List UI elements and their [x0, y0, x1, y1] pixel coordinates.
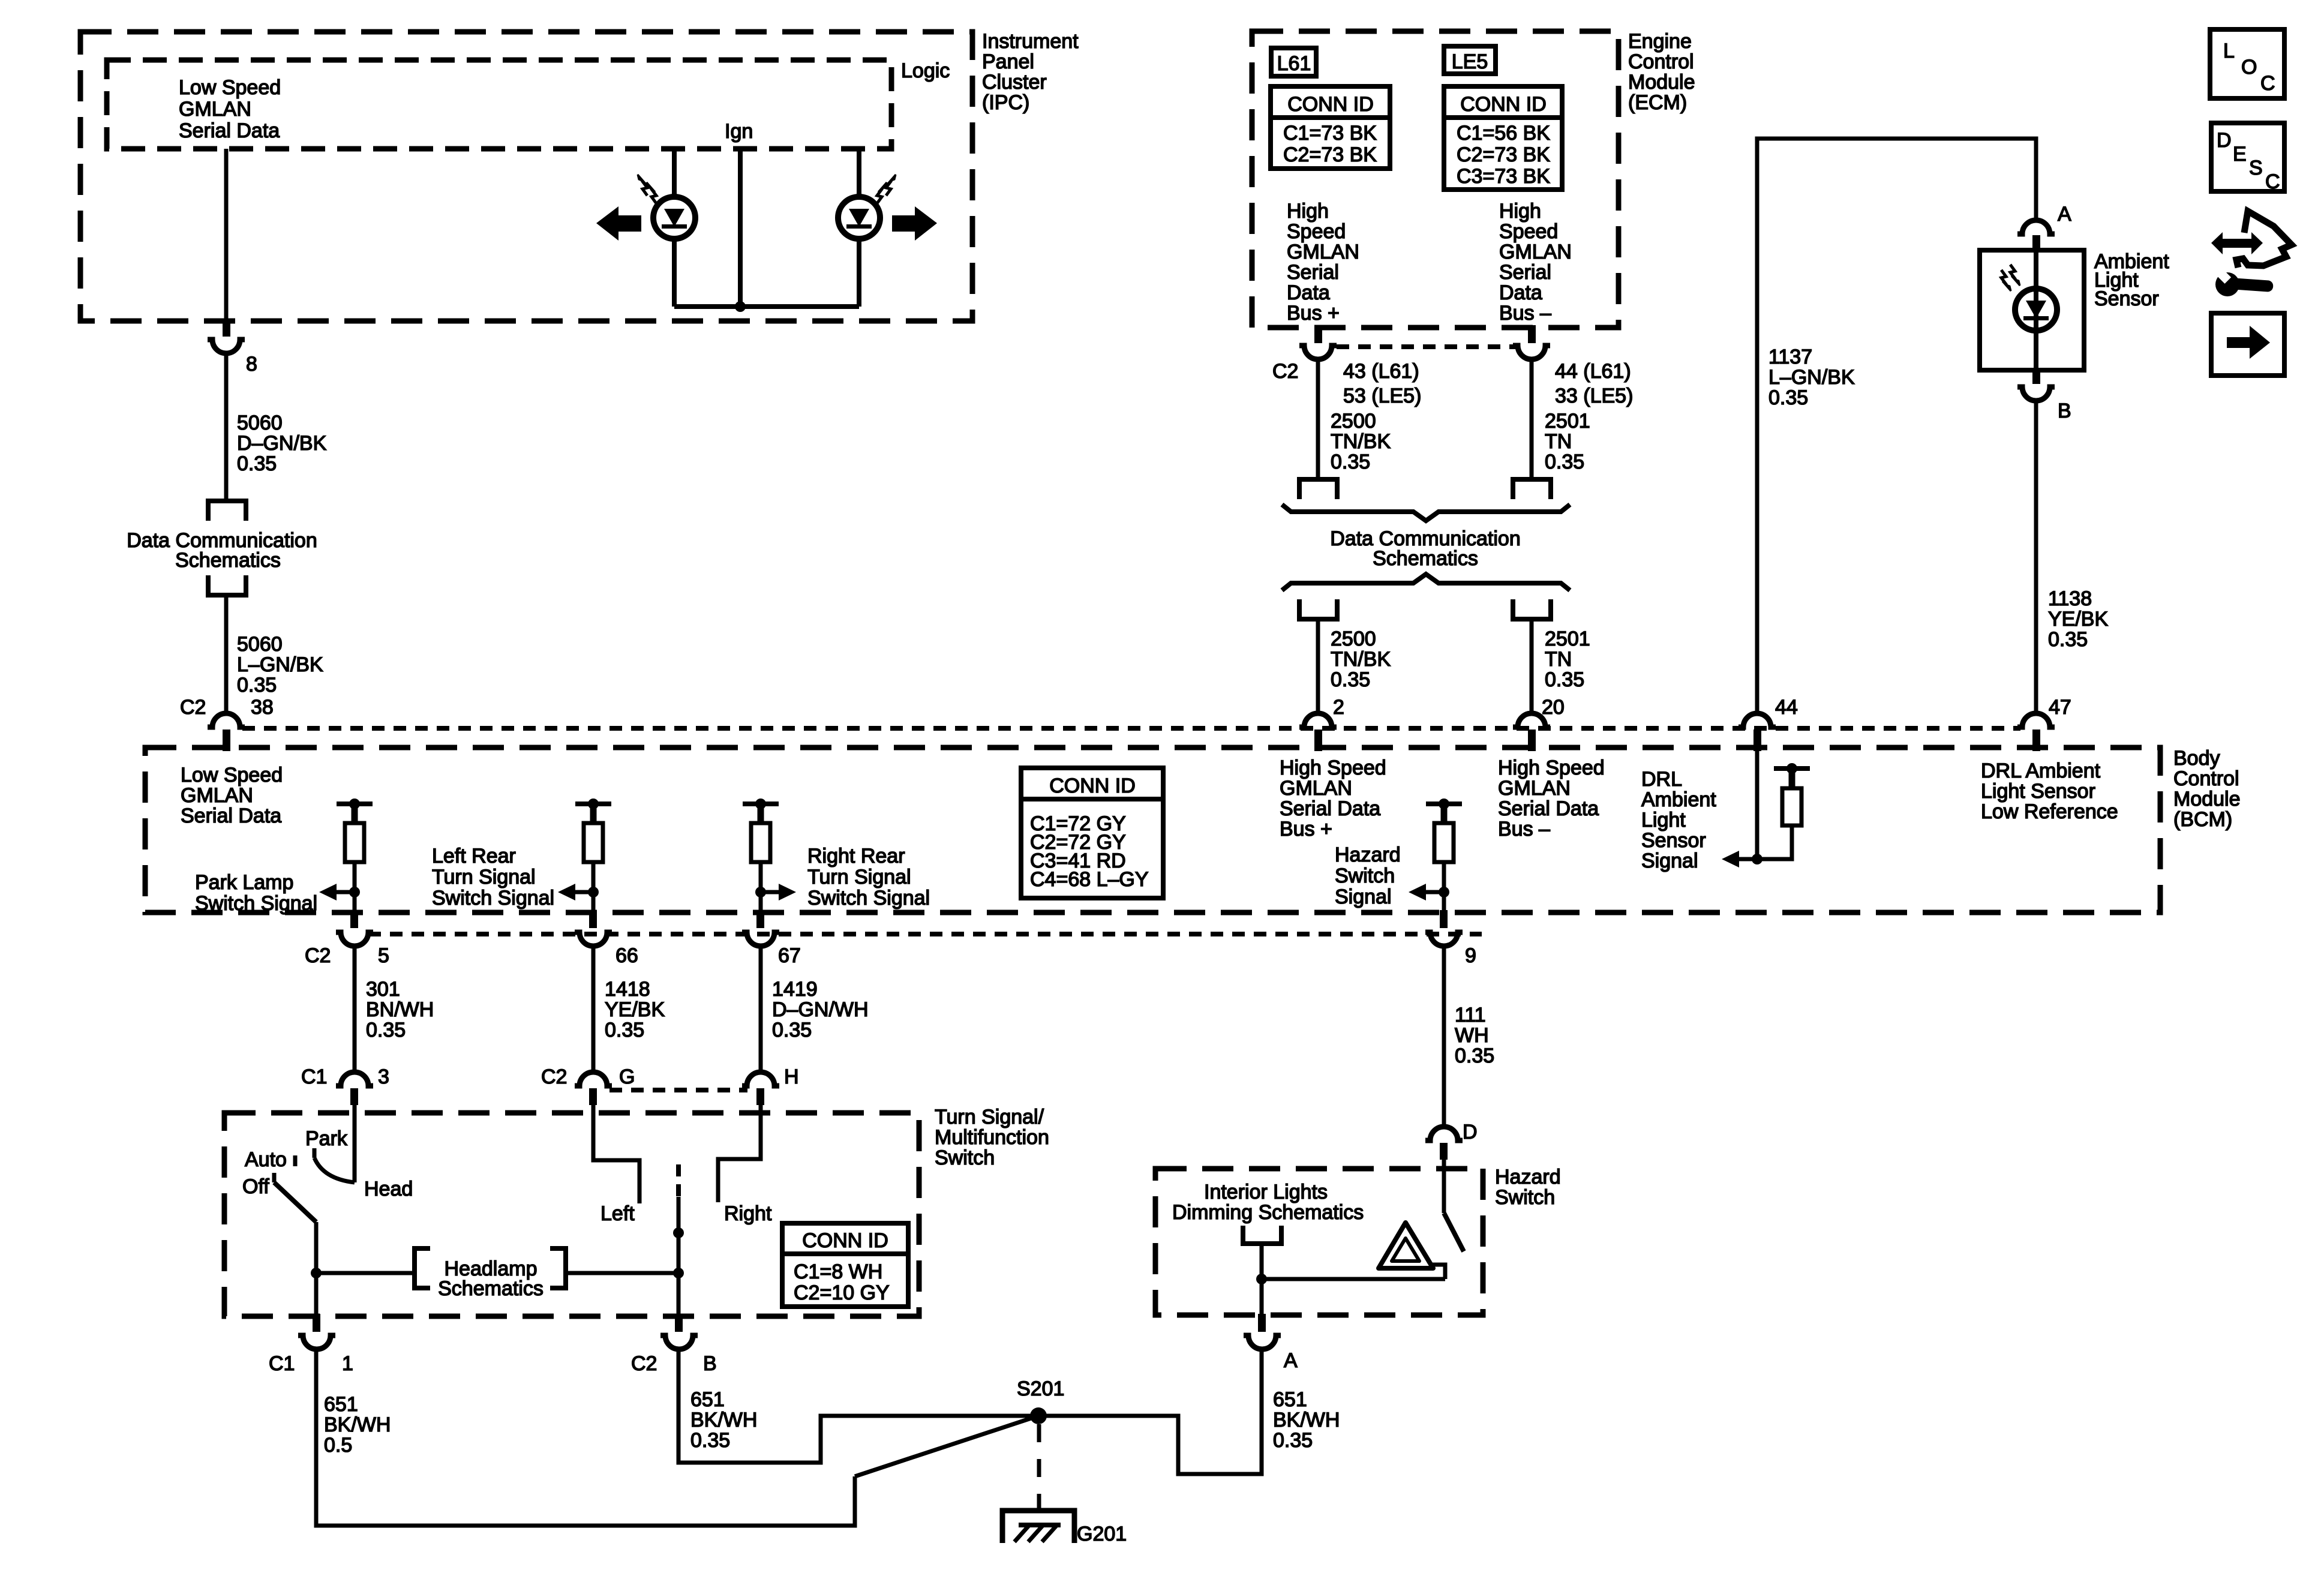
svg-text:D–GN/BK: D–GN/BK	[237, 432, 327, 455]
wire: 651 BK/WH 0.35 from C2-B	[678, 1350, 1038, 1463]
svg-text:Low Speed: Low Speed	[181, 764, 283, 786]
icon: DESC box	[2211, 123, 2284, 193]
connector: ambient light sensor pin A	[2017, 220, 2055, 251]
svg-text:8: 8	[246, 353, 257, 376]
svg-text:9: 9	[1465, 944, 1476, 967]
wire: diagonal to splice S201	[855, 1416, 1038, 1476]
svg-text:1418: 1418	[605, 978, 650, 1001]
svg-text:E: E	[2233, 143, 2247, 166]
table: CONN ID (LE5)	[1444, 86, 1562, 190]
resistor: hazard switch signal driver	[1426, 798, 1462, 912]
svg-text:Switch Signal: Switch Signal	[432, 887, 554, 909]
svg-text:Ambient: Ambient	[1641, 788, 1716, 811]
module box: Engine Control Module (ECM)	[1252, 31, 1619, 328]
svg-text:O: O	[2241, 56, 2257, 79]
pin label: B	[2058, 400, 2071, 422]
svg-text:Turn Signal/: Turn Signal/	[935, 1106, 1044, 1128]
lightning arrows: right LED	[877, 175, 896, 203]
svg-text:Left: Left	[600, 1202, 635, 1225]
wire: 651 BK/WH 0.35 from hazard A	[1038, 1349, 1262, 1474]
pin label: 47	[2049, 696, 2071, 719]
node: Low Speed GMLAN Serial Data (IPC)	[179, 76, 281, 142]
svg-text:C2: C2	[305, 944, 331, 967]
LED: right turn indicator lamp	[838, 197, 880, 239]
svg-text:(ECM): (ECM)	[1628, 91, 1687, 114]
svg-text:Bus +: Bus +	[1280, 818, 1332, 840]
node: High Speed GMLAN Serial Data Bus - (ECM)	[1499, 200, 1572, 325]
svg-text:L–GN/BK: L–GN/BK	[1768, 366, 1855, 389]
svg-text:BK/WH: BK/WH	[1273, 1409, 1340, 1431]
svg-text:66: 66	[615, 944, 638, 967]
svg-text:Signal: Signal	[1335, 885, 1392, 908]
connector dash line: ECM C2	[1337, 344, 1515, 349]
svg-text:301: 301	[366, 978, 400, 1001]
svg-text:C2=73 BK: C2=73 BK	[1457, 143, 1550, 166]
pin label: A	[2058, 203, 2071, 226]
svg-text:B: B	[703, 1352, 717, 1375]
ground: G201	[1002, 1511, 1127, 1545]
svg-text:0.35: 0.35	[605, 1019, 644, 1041]
svg-text:D: D	[1463, 1121, 1478, 1143]
svg-text:TN: TN	[1545, 430, 1572, 453]
table: CONN ID (turn signal switch)	[782, 1223, 908, 1307]
svg-text:TN/BK: TN/BK	[1331, 430, 1391, 453]
pin label: C2 G	[541, 1065, 635, 1088]
svg-text:0.35: 0.35	[237, 674, 277, 697]
wire: 2501 TN upper	[1530, 359, 1534, 479]
svg-text:Auto: Auto	[245, 1148, 287, 1171]
svg-text:0.35: 0.35	[1331, 668, 1370, 691]
wire: Ign feed	[738, 149, 743, 307]
label: Interior Lights Dimming Schematics	[1172, 1181, 1364, 1224]
pin label: 20	[1542, 696, 1565, 719]
switch blade: hazard switch	[1444, 1160, 1464, 1251]
svg-text:0.35: 0.35	[1768, 386, 1808, 409]
svg-text:Head: Head	[364, 1178, 413, 1200]
wire: hazard switch contact to dimming junction	[1262, 1277, 1445, 1281]
wire label: 1138 YE/BK 0.35	[2048, 587, 2108, 651]
resistor: park lamp switch signal driver	[337, 798, 373, 912]
brace: to data communication schematics	[1282, 505, 1570, 521]
svg-text:C2: C2	[1272, 360, 1298, 383]
svg-text:Schematics: Schematics	[175, 549, 281, 572]
off-page bracket: to data communication schematics (top)	[208, 501, 246, 521]
lightning arrows: into photodiode	[2001, 265, 2020, 291]
svg-text:Switch: Switch	[1495, 1186, 1555, 1209]
svg-text:YE/BK: YE/BK	[2048, 608, 2108, 631]
svg-text:DRL Ambient: DRL Ambient	[1981, 760, 2101, 782]
node: Low Speed GMLAN Serial Data (BCM)	[181, 764, 283, 827]
connector dash line: C2 G-H	[609, 1088, 747, 1092]
svg-text:3: 3	[378, 1065, 389, 1088]
contact: park	[313, 1148, 317, 1158]
wire label: 651 BK/WH 0.35 (right)	[1273, 1388, 1340, 1452]
svg-text:High Speed: High Speed	[1498, 757, 1605, 779]
svg-text:Data: Data	[1287, 281, 1330, 304]
photodiode: ambient light sensor	[2015, 289, 2057, 331]
svg-text:0.35: 0.35	[366, 1019, 406, 1041]
svg-text:1137: 1137	[1768, 346, 1812, 368]
svg-text:Bus +: Bus +	[1287, 302, 1340, 325]
svg-text:D: D	[2217, 129, 2232, 152]
svg-text:0.35: 0.35	[1455, 1044, 1494, 1067]
svg-text:33 (LE5): 33 (LE5)	[1555, 385, 1633, 407]
svg-text:Hazard: Hazard	[1495, 1166, 1561, 1188]
svg-text:CONN ID: CONN ID	[1049, 775, 1136, 797]
label: Body Control Module (BCM)	[2173, 747, 2241, 831]
wire label: 111 WH 0.35	[1455, 1004, 1494, 1067]
svg-text:C1: C1	[301, 1065, 327, 1088]
connector: BCM pin 47	[2017, 713, 2055, 751]
wire: 5060 L-GN/BK 0.35	[224, 595, 229, 714]
svg-text:DRL: DRL	[1641, 768, 1682, 791]
switch wiper: headlamp switch arc	[314, 1158, 355, 1182]
svg-text:GMLAN: GMLAN	[1287, 241, 1359, 263]
label: Right	[724, 1202, 772, 1225]
label: Turn Signal/Multifunction Switch	[935, 1106, 1049, 1169]
svg-text:Logic: Logic	[901, 59, 950, 82]
label: Ign	[725, 120, 753, 143]
svg-text:TN: TN	[1545, 648, 1572, 671]
svg-text:38: 38	[251, 696, 274, 719]
svg-text:L61: L61	[1277, 52, 1311, 75]
wire label: 2501 TN 0.35 upper	[1545, 410, 1590, 473]
wire label: 651 BK/WH 0.5	[324, 1393, 391, 1457]
label: Right Rear Turn Signal Switch Signal	[807, 845, 930, 909]
arrow: right rear turn signal switch signal	[761, 884, 796, 900]
svg-text:Control: Control	[1628, 50, 1694, 73]
wire: 1418 YE/BK 0.35	[591, 946, 596, 1073]
svg-text:0.5: 0.5	[324, 1434, 352, 1457]
svg-text:Hazard: Hazard	[1335, 843, 1401, 866]
arrow: park lamp switch signal	[319, 884, 355, 900]
node: left rear junction	[588, 887, 599, 897]
svg-text:High Speed: High Speed	[1280, 757, 1386, 779]
wire: 651 BK/WH 0.5 from C1-1	[316, 1350, 855, 1526]
svg-text:Right Rear: Right Rear	[807, 845, 905, 867]
svg-text:Light Sensor: Light Sensor	[1981, 780, 2095, 803]
svg-text:0.35: 0.35	[1545, 451, 1584, 473]
label: Engine Control Module (ECM)	[1628, 30, 1695, 114]
svg-text:TN/BK: TN/BK	[1331, 648, 1391, 671]
wire label: 1137 L-GN/BK 0.35	[1768, 346, 1855, 409]
label: Left	[600, 1202, 635, 1225]
svg-text:Switch: Switch	[1335, 864, 1395, 887]
svg-text:C: C	[2260, 72, 2275, 95]
connector: BCM pin 20	[1513, 713, 1550, 751]
svg-text:BK/WH: BK/WH	[690, 1409, 757, 1431]
off-page bracket: 2501 lower end	[1513, 599, 1551, 619]
pin label: 44 (L61) 33 (LE5)	[1555, 360, 1633, 407]
lightning arrows: left LED	[638, 175, 656, 203]
wire: ground lead (dashed)	[1037, 1424, 1041, 1524]
svg-text:WH: WH	[1455, 1024, 1489, 1047]
svg-text:0.35: 0.35	[237, 452, 277, 475]
label: Park Lamp Switch Signal	[195, 871, 317, 915]
wire: 2500 TN/BK upper	[1316, 359, 1320, 479]
svg-text:Module: Module	[2173, 788, 2241, 810]
wire: through ambient sensor	[2034, 250, 2038, 370]
svg-text:Right: Right	[724, 1202, 772, 1225]
arrow: DRL ambient light sensor signal	[1722, 851, 1757, 867]
svg-text:Schematics: Schematics	[438, 1277, 544, 1300]
svg-text:C2: C2	[631, 1352, 657, 1375]
svg-text:S201: S201	[1017, 1377, 1064, 1400]
connector: ECM C2 pin 43/53	[1299, 325, 1337, 359]
wire label: 301 BN/WH 0.35	[366, 978, 434, 1041]
svg-text:2: 2	[1333, 696, 1344, 719]
svg-text:Low Speed: Low Speed	[179, 76, 281, 99]
svg-text:C1=73 BK: C1=73 BK	[1283, 122, 1377, 145]
icon: harness repair (arrow, connector, wrench)	[2211, 211, 2292, 296]
connector: turn signal switch C2 pin B	[660, 1314, 698, 1349]
svg-text:CONN ID: CONN ID	[1287, 93, 1374, 116]
resistor: left rear turn signal driver	[575, 798, 611, 912]
wire: left turn contact feed	[593, 1105, 639, 1203]
svg-text:C1: C1	[269, 1352, 295, 1375]
svg-text:651: 651	[1273, 1388, 1307, 1411]
svg-text:Park: Park	[305, 1127, 348, 1150]
pin label: A	[1284, 1349, 1298, 1372]
wire: 2500 TN/BK lower	[1316, 619, 1320, 714]
svg-text:67: 67	[778, 944, 801, 967]
svg-text:(IPC): (IPC)	[982, 91, 1029, 114]
svg-text:Sensor: Sensor	[2094, 287, 2159, 310]
connector: hazard switch pin D	[1425, 1127, 1463, 1160]
pin label: D	[1463, 1121, 1478, 1143]
svg-text:53 (LE5): 53 (LE5)	[1343, 385, 1421, 407]
svg-text:A: A	[1284, 1349, 1298, 1372]
svg-text:Sensor: Sensor	[1641, 829, 1706, 852]
svg-text:L–GN/BK: L–GN/BK	[237, 653, 323, 676]
connector: turn signal switch C1 pin 1	[298, 1314, 335, 1349]
svg-text:(BCM): (BCM)	[2173, 808, 2232, 831]
svg-text:44 (L61): 44 (L61)	[1555, 360, 1631, 383]
wire label: 2501 TN 0.35 lower	[1545, 628, 1590, 691]
module box: Turn Signal/Multifunction Switch	[224, 1113, 919, 1316]
svg-text:44: 44	[1775, 696, 1798, 719]
wire label: 5060 L-GN/BK 0.35	[237, 633, 323, 697]
svg-text:Switch Signal: Switch Signal	[195, 892, 317, 915]
svg-text:C1=8 WH: C1=8 WH	[794, 1260, 882, 1283]
off-page bracket: 2501 upper end	[1513, 479, 1551, 499]
tag box: L61	[1271, 48, 1316, 76]
node: High Speed GMLAN Serial Data Bus + (ECM)	[1287, 200, 1359, 325]
off-page bracket: interior lights dimming schematics	[1243, 1226, 1281, 1244]
table: CONN ID (L61)	[1271, 86, 1390, 169]
pin label: H	[784, 1065, 799, 1088]
wire: 1137 ambient sensor feed loop	[1757, 139, 2036, 714]
svg-text:Turn Signal: Turn Signal	[807, 866, 911, 888]
pin label: C1 1	[269, 1352, 353, 1375]
svg-text:651: 651	[324, 1393, 358, 1416]
component box: Ambient Light Sensor	[1980, 250, 2084, 370]
pin label: 44	[1775, 696, 1798, 719]
module box: Instrument Panel Cluster (IPC)	[80, 32, 972, 321]
svg-text:1138: 1138	[2048, 587, 2092, 610]
off-page bracket: 2500 upper end	[1299, 479, 1337, 499]
splice: S201	[1017, 1377, 1064, 1424]
pin label: C2 38	[180, 696, 274, 719]
pin label: C2 B	[631, 1352, 717, 1375]
wire label: 2500 TN/BK 0.35 upper	[1331, 410, 1391, 473]
wire label: 2500 TN/BK 0.35 lower	[1331, 628, 1391, 691]
wire: 1138 YE/BK 0.35	[2034, 401, 2038, 714]
pin label: C1 3	[301, 1065, 389, 1088]
connector: BCM C2 pin 38	[208, 713, 245, 751]
connector: hazard switch pin A	[1244, 1314, 1281, 1349]
wire: headlamp schematics to turn signal common	[566, 1271, 678, 1275]
wire: into headlamp switch	[353, 1105, 357, 1182]
svg-text:Module: Module	[1628, 71, 1695, 94]
svg-text:Signal: Signal	[1641, 849, 1698, 872]
svg-text:Light: Light	[1641, 809, 1686, 831]
label: Logic	[901, 59, 950, 82]
node: dimming junction	[1256, 1274, 1267, 1284]
svg-text:Serial Data: Serial Data	[1498, 797, 1599, 820]
svg-text:2500: 2500	[1331, 410, 1376, 433]
node: High Speed GMLAN Serial Data Bus - (BCM)	[1498, 757, 1605, 840]
off-page bracket: 2500 lower end	[1299, 599, 1337, 619]
label: Data Communication Schematics	[127, 529, 317, 572]
svg-text:Bus –: Bus –	[1499, 302, 1551, 325]
svg-text:G: G	[619, 1065, 635, 1088]
svg-text:Multifunction: Multifunction	[935, 1126, 1049, 1149]
wire: low speed GMLAN serial data inside IPC	[224, 149, 229, 321]
node: hazard junction	[1439, 887, 1449, 897]
svg-text:651: 651	[690, 1388, 725, 1411]
module box: hazard switch / interior lights dimming	[1155, 1169, 1483, 1315]
node: turn signal pivot	[673, 1227, 684, 1238]
label: DRL Ambient Light Sensor Signal	[1641, 768, 1716, 872]
resistor: right rear turn signal driver	[743, 798, 779, 912]
connector: BCM pin 2	[1299, 713, 1337, 751]
contact: off	[272, 1173, 277, 1182]
wire: LED common return	[674, 304, 859, 309]
resistor: DRL sensor pull-up	[1757, 763, 1810, 859]
svg-text:Park Lamp: Park Lamp	[195, 871, 293, 894]
symbol: hazard warning triangle	[1379, 1223, 1433, 1268]
svg-text:Serial: Serial	[1499, 261, 1551, 284]
module box: Body Control Module (BCM)	[145, 748, 2160, 912]
arrow: right turn direction	[892, 206, 937, 241]
connector dash line: BCM top connectors	[242, 726, 2020, 731]
node: headlamp wire junction	[673, 1268, 684, 1278]
pin label: 66	[615, 944, 638, 967]
svg-text:H: H	[784, 1065, 799, 1088]
svg-text:5: 5	[378, 944, 389, 967]
svg-text:G201: G201	[1077, 1523, 1127, 1545]
off-page bracket: from data communication schematics (bottom)	[208, 575, 246, 595]
label: Off	[242, 1175, 269, 1198]
svg-text:Interior Lights: Interior Lights	[1204, 1181, 1328, 1203]
wire: 1419 D-GN/WH 0.35	[759, 946, 763, 1073]
icon: arrow box	[2211, 313, 2284, 376]
brace: from data communication schematics	[1282, 574, 1570, 590]
svg-text:0.35: 0.35	[1331, 451, 1370, 473]
svg-text:Instrument: Instrument	[982, 30, 1079, 53]
wire: headlamp switch output	[314, 1222, 319, 1316]
svg-text:Off: Off	[242, 1175, 269, 1198]
svg-text:High: High	[1499, 200, 1541, 223]
svg-text:Serial: Serial	[1287, 261, 1339, 284]
svg-text:0.35: 0.35	[772, 1019, 812, 1041]
svg-text:Speed: Speed	[1287, 220, 1346, 243]
svg-text:Switch Signal: Switch Signal	[807, 887, 930, 909]
node: park lamp junction	[349, 887, 360, 897]
svg-text:CONN ID: CONN ID	[802, 1229, 888, 1252]
label: Hazard Switch	[1495, 1166, 1561, 1209]
svg-text:Serial Data: Serial Data	[1280, 797, 1380, 820]
label: Data Communication Schematics (center)	[1330, 527, 1520, 570]
svg-text:C: C	[2265, 170, 2280, 193]
pin label: C2 5	[305, 944, 389, 967]
node: right rear junction	[755, 887, 766, 897]
wire: 2501 TN lower	[1530, 619, 1534, 714]
svg-text:0.35: 0.35	[1545, 668, 1584, 691]
connector: BCM pin 66	[575, 910, 612, 946]
switch blade: headlamp switch	[274, 1182, 316, 1222]
svg-text:GMLAN: GMLAN	[1498, 777, 1571, 800]
svg-text:CONN ID: CONN ID	[1460, 93, 1547, 116]
mechanical link: turn signal switch (dashed)	[676, 1164, 681, 1197]
wire label: 5060 D-GN/BK 0.35	[237, 412, 327, 475]
label: Head	[364, 1178, 413, 1200]
wire: 5060 D-GN/BK 0.35	[224, 353, 229, 501]
svg-text:A: A	[2058, 203, 2071, 226]
svg-text:C3=73 BK: C3=73 BK	[1457, 165, 1550, 188]
svg-text:5060: 5060	[237, 412, 283, 434]
svg-text:Bus –: Bus –	[1498, 818, 1550, 840]
arrow: left turn direction	[596, 206, 641, 241]
wire: 111 WH 0.35	[1442, 946, 1446, 1128]
connector: BCM pin 44	[1739, 713, 1776, 751]
wire: 301 BN/WH 0.35	[353, 946, 357, 1073]
connector dash line: BCM bottom connectors	[368, 932, 1482, 936]
label: DRL Ambient Light Sensor Low Reference	[1981, 760, 2118, 823]
arrow: hazard switch signal	[1409, 884, 1444, 900]
svg-text:20: 20	[1542, 696, 1565, 719]
svg-text:LE5: LE5	[1452, 50, 1488, 73]
svg-text:5060: 5060	[237, 633, 283, 656]
connector: turn signal switch pin H	[742, 1072, 779, 1105]
connector: BCM pin 67	[742, 910, 779, 946]
svg-text:BN/WH: BN/WH	[366, 998, 434, 1021]
svg-text:Switch: Switch	[935, 1146, 995, 1169]
svg-text:GMLAN: GMLAN	[1499, 241, 1572, 263]
svg-text:GMLAN: GMLAN	[179, 98, 251, 121]
contact: hazard switch lower	[1429, 1265, 1445, 1279]
arrow: left rear turn signal switch signal	[558, 884, 593, 900]
svg-text:1419: 1419	[772, 978, 818, 1001]
tag box: LE5	[1444, 46, 1496, 74]
svg-text:Serial Data: Serial Data	[179, 119, 280, 142]
svg-text:High: High	[1287, 200, 1329, 223]
connector: IPC pin 8	[208, 319, 245, 353]
svg-text:47: 47	[2049, 696, 2071, 719]
svg-text:Ign: Ign	[725, 120, 753, 143]
icon: LOC box	[2210, 29, 2284, 98]
pin label: 8	[246, 353, 257, 376]
svg-text:B: B	[2058, 400, 2071, 422]
wire: turn signal switch common	[677, 1197, 681, 1316]
label: Ambient Light Sensor	[2094, 250, 2169, 310]
label: Auto	[245, 1148, 287, 1171]
svg-text:Control: Control	[2173, 767, 2239, 790]
svg-text:C2: C2	[541, 1065, 567, 1088]
wire: to headlamp schematics	[316, 1271, 414, 1275]
node: High Speed GMLAN Serial Data Bus + (BCM)	[1280, 757, 1386, 840]
